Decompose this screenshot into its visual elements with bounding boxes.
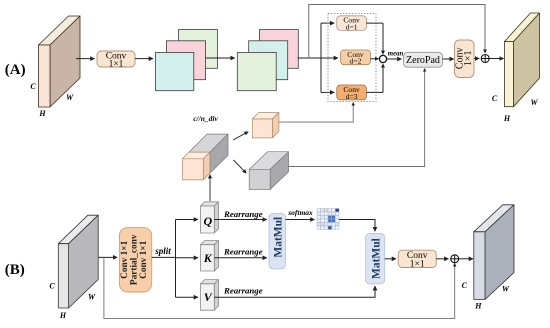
svg-text:MatMul: MatMul bbox=[273, 217, 285, 258]
svg-text:W: W bbox=[530, 98, 538, 107]
svg-text:Conv 1×1: Conv 1×1 bbox=[120, 240, 130, 278]
svg-text:C: C bbox=[30, 82, 36, 91]
svg-text:W: W bbox=[502, 285, 510, 294]
svg-text:MatMul: MatMul bbox=[371, 238, 383, 279]
svg-text:C: C bbox=[492, 94, 498, 103]
svg-text:1×1: 1×1 bbox=[463, 50, 474, 66]
svg-text:softmax: softmax bbox=[287, 208, 313, 217]
svg-text:H: H bbox=[474, 302, 482, 311]
svg-text:split: split bbox=[154, 246, 171, 256]
svg-text:H: H bbox=[38, 109, 46, 118]
svg-text:d=1: d=1 bbox=[346, 22, 358, 31]
svg-text:(B): (B) bbox=[5, 262, 25, 278]
svg-text:H: H bbox=[503, 114, 511, 123]
svg-text:Rearrange: Rearrange bbox=[223, 286, 263, 296]
svg-text:c//n_div: c//n_div bbox=[193, 114, 218, 123]
svg-text:K: K bbox=[203, 251, 213, 265]
svg-text:Rearrange: Rearrange bbox=[223, 247, 263, 257]
svg-text:W: W bbox=[66, 93, 74, 102]
svg-text:Conv 1×1: Conv 1×1 bbox=[139, 240, 149, 278]
svg-text:Partial_conv: Partial_conv bbox=[130, 234, 140, 285]
svg-text:H: H bbox=[59, 311, 67, 320]
svg-text:(A): (A) bbox=[5, 62, 26, 78]
svg-text:1×1: 1×1 bbox=[109, 59, 124, 69]
svg-text:d=2: d=2 bbox=[350, 57, 362, 66]
svg-text:Q: Q bbox=[203, 214, 212, 228]
svg-text:V: V bbox=[204, 290, 213, 304]
svg-text:ZeroPad: ZeroPad bbox=[406, 55, 440, 66]
svg-text:Rearrange: Rearrange bbox=[223, 209, 263, 219]
svg-text:W: W bbox=[88, 293, 96, 302]
svg-text:1×1: 1×1 bbox=[410, 259, 425, 269]
svg-text:C: C bbox=[462, 281, 468, 290]
svg-text:mean: mean bbox=[388, 51, 404, 58]
svg-text:C: C bbox=[49, 282, 55, 291]
svg-text:d=3: d=3 bbox=[346, 92, 358, 101]
